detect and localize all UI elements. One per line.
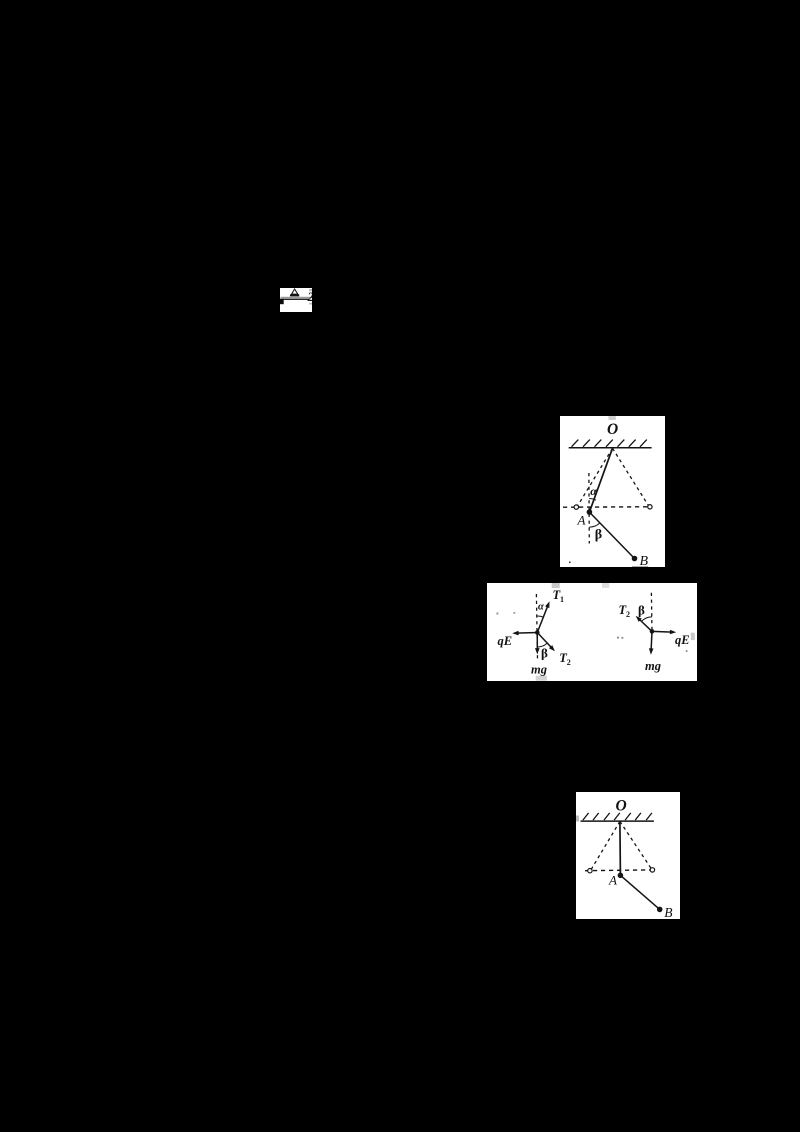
force qE arrow right bbox=[652, 630, 672, 633]
grey mark left edge bbox=[576, 815, 579, 821]
svg-text:2: 2 bbox=[626, 610, 630, 619]
svg-text:O: O bbox=[616, 797, 627, 814]
hatch 7 bbox=[640, 439, 647, 446]
alpha angle arc bbox=[589, 498, 596, 500]
rod AB bbox=[620, 875, 659, 909]
svg-text:qE: qE bbox=[675, 633, 690, 647]
center dot right diagram bbox=[650, 629, 655, 634]
rod AB bbox=[589, 512, 634, 558]
beta angle arc left diagram bbox=[537, 643, 547, 647]
hatch 5 bbox=[625, 812, 631, 819]
svg-text:β: β bbox=[595, 527, 602, 542]
dashed vertical line through A bbox=[588, 473, 590, 544]
svg-text:mg: mg bbox=[531, 663, 547, 677]
lever beam upper line bbox=[280, 296, 311, 297]
dashed line O to left circle bbox=[578, 448, 613, 505]
svg-text:1: 1 bbox=[560, 595, 564, 604]
cropped lever figure panel bbox=[280, 288, 313, 312]
grey underline below B bbox=[632, 566, 648, 568]
grey smudge bottom bbox=[536, 676, 547, 681]
lever beam lower line bbox=[281, 298, 309, 300]
point A dot bbox=[618, 872, 624, 878]
svg-text:A: A bbox=[577, 512, 586, 527]
svg-text:qE: qE bbox=[498, 634, 513, 648]
pendulum diagram panel 2 bbox=[576, 792, 680, 920]
grey speck pair right diagram bbox=[617, 637, 619, 639]
grey mark top right bbox=[309, 289, 313, 291]
hatch 7 bbox=[646, 812, 652, 819]
dashed vertical line left diagram bbox=[537, 594, 538, 660]
left weight blob bbox=[280, 298, 284, 304]
hatch 6 bbox=[629, 439, 636, 446]
hatch 5 bbox=[618, 439, 625, 446]
dashed horizontal line bbox=[563, 505, 648, 507]
hatch 4 bbox=[614, 812, 620, 819]
point A dot bbox=[587, 509, 593, 515]
force mg arrow bbox=[536, 633, 538, 651]
left open circle bbox=[574, 504, 578, 508]
hatch 3 bbox=[595, 439, 602, 446]
svg-text:α: α bbox=[590, 483, 597, 497]
tiny speck bbox=[569, 561, 571, 563]
svg-text:β: β bbox=[638, 603, 645, 618]
grey smudge top bbox=[609, 416, 616, 420]
grey smudge top 1 bbox=[552, 583, 560, 588]
left open circle bbox=[588, 868, 592, 872]
dashed line O to right circle bbox=[620, 821, 651, 868]
point B dot bbox=[632, 555, 638, 561]
fulcrum triangle bbox=[291, 289, 297, 294]
dashed horizontal line bbox=[585, 868, 650, 871]
svg-text:O: O bbox=[607, 421, 618, 438]
hatch 2 bbox=[583, 439, 590, 446]
tiny speck right diagram bbox=[686, 650, 688, 652]
ceiling line bbox=[581, 820, 654, 822]
hatch 4 bbox=[606, 439, 613, 446]
pendulum diagram panel 1 bbox=[560, 416, 665, 568]
svg-text:mg: mg bbox=[645, 659, 661, 673]
hatch 6 bbox=[635, 812, 641, 819]
right open circle bbox=[650, 867, 654, 871]
rod OA bbox=[589, 448, 612, 512]
svg-text:β: β bbox=[541, 646, 548, 661]
grey smudge top 2 bbox=[602, 583, 609, 588]
hatch 3 bbox=[604, 812, 610, 819]
rod OA vertical bbox=[619, 821, 622, 875]
svg-text:2: 2 bbox=[567, 658, 571, 667]
dashed line O to right circle bbox=[613, 448, 649, 505]
svg-text:2: 2 bbox=[306, 290, 312, 304]
dashed vertical line right diagram bbox=[651, 593, 654, 632]
dashed line O to left circle bbox=[592, 821, 620, 869]
grey speck left pair bbox=[497, 613, 499, 615]
point B dot bbox=[657, 906, 663, 912]
svg-text:α: α bbox=[538, 602, 544, 613]
force mg arrow right bbox=[650, 631, 653, 651]
hatch 1 bbox=[572, 439, 579, 446]
right open circle bbox=[648, 504, 652, 508]
beta angle arc bbox=[589, 522, 600, 526]
beta angle arc right diagram bbox=[642, 617, 653, 622]
grey mark right bbox=[309, 302, 313, 304]
svg-text:A: A bbox=[608, 872, 617, 887]
force diagrams panel bbox=[487, 583, 697, 681]
ceiling line bbox=[569, 446, 652, 448]
svg-text:B: B bbox=[664, 905, 672, 920]
alpha angle arc left diagram bbox=[537, 616, 543, 617]
grey patch right edge bbox=[691, 633, 695, 640]
hatch 1 bbox=[583, 812, 589, 819]
force T1 arrow bbox=[537, 605, 548, 633]
force T2 arrow right bbox=[639, 619, 653, 632]
fulcrum base bar bbox=[290, 294, 299, 296]
svg-text:B: B bbox=[640, 553, 649, 567]
force T2 arrow bbox=[537, 633, 552, 649]
hatch 2 bbox=[593, 812, 599, 819]
force qE arrow bbox=[516, 632, 537, 635]
center dot left diagram bbox=[535, 630, 540, 635]
